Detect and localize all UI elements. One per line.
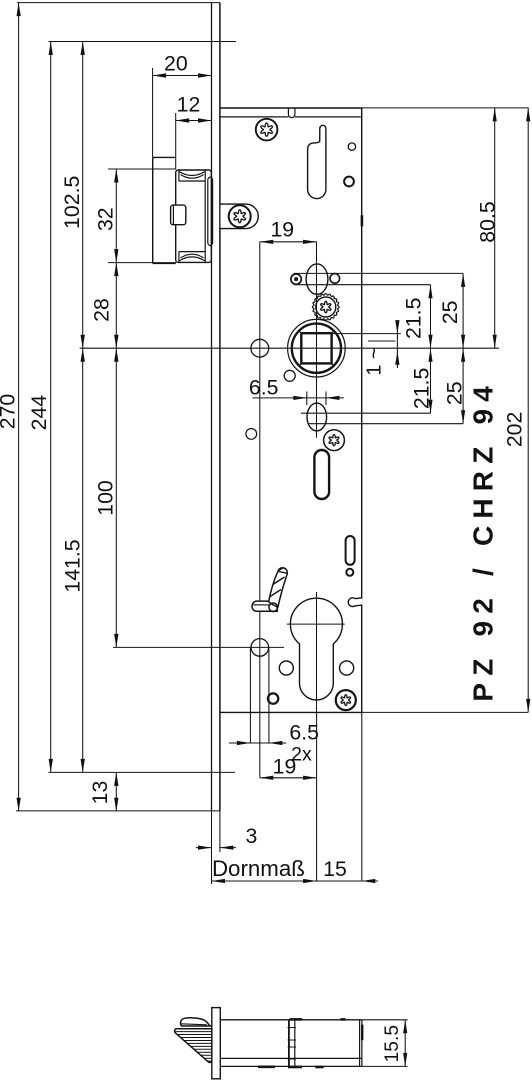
svg-text:19: 19 xyxy=(273,754,297,778)
nut square xyxy=(301,333,331,363)
dim 12 xyxy=(176,120,212,122)
capsule below nut xyxy=(307,403,327,431)
faceplate back edge xyxy=(219,3,221,811)
weld dashes top xyxy=(290,1018,303,1021)
screw T1 top xyxy=(256,119,278,141)
dim 1~ xyxy=(396,323,398,368)
dim 80.5 xyxy=(494,108,496,348)
square corner ticks xyxy=(298,330,301,333)
axis line lower xyxy=(316,592,318,712)
faceplate front edge xyxy=(211,3,213,811)
dim 244 xyxy=(50,42,52,773)
case edge hook detail xyxy=(348,598,362,607)
dim 19 top xyxy=(260,241,317,243)
thick circle xyxy=(268,693,278,703)
small capsule xyxy=(346,536,355,565)
svg-text:25: 25 xyxy=(443,381,467,405)
side view faceplate bar xyxy=(212,1008,221,1079)
strike body xyxy=(176,170,212,262)
svg-text:19: 19 xyxy=(270,217,294,241)
dim Dornmass + 15 xyxy=(212,880,362,882)
dim 32 xyxy=(115,169,117,263)
extension line nut axis xyxy=(80,347,499,349)
screw T3 xyxy=(336,690,356,710)
extension line case top right xyxy=(362,107,529,109)
extension line axis upper xyxy=(316,242,318,438)
latch head lobe xyxy=(180,1018,211,1026)
dim 6.5 upper xyxy=(253,397,345,399)
svg-text:1 ~: 1 ~ xyxy=(364,347,386,375)
case edge thick tick xyxy=(361,215,364,226)
extension line 12 left xyxy=(175,113,177,169)
svg-text:21.5: 21.5 xyxy=(402,298,426,339)
strike inner vertical xyxy=(204,181,206,252)
oval slot xyxy=(306,264,328,294)
small circle below capsule xyxy=(346,569,353,576)
extension line 244/141.5 bottom xyxy=(49,771,236,773)
extension line 25 lower xyxy=(308,423,464,425)
svg-text:202: 202 xyxy=(503,412,527,448)
strike bottom roller xyxy=(178,252,180,263)
svg-text:21.5: 21.5 xyxy=(409,368,433,409)
dim 21.5 upper xyxy=(430,285,432,349)
extension line top (270 ref, faceplate top) xyxy=(17,2,220,4)
svg-text:PZ 92 / CHRZ 94: PZ 92 / CHRZ 94 xyxy=(468,379,499,702)
extension line 32 top xyxy=(108,168,176,170)
small hole xyxy=(348,143,355,150)
case top notch xyxy=(288,108,295,117)
lock case outline xyxy=(220,108,362,712)
dim 141.5 xyxy=(82,348,84,772)
handle hole upper xyxy=(251,339,269,357)
svg-text:6.5: 6.5 xyxy=(289,720,319,744)
change lever xyxy=(252,601,277,611)
screw tab capsule xyxy=(221,204,259,229)
svg-text:15.5: 15.5 xyxy=(382,1025,403,1063)
thick slot capsule xyxy=(314,450,329,499)
small circle right of oval xyxy=(330,274,340,284)
extension line 20 left xyxy=(152,68,154,157)
svg-text:80.5: 80.5 xyxy=(476,201,500,242)
tangent lines hole lower xyxy=(249,648,251,743)
svg-text:13: 13 xyxy=(88,781,112,805)
svg-text:Dornmaß: Dornmaß xyxy=(212,856,305,881)
right edge tick xyxy=(361,1025,363,1041)
short reference line xyxy=(368,340,395,342)
extension line faceplate back below xyxy=(219,811,221,852)
latch bevel wedge xyxy=(174,1029,211,1063)
screw T2 xyxy=(324,430,345,451)
extension line 32 bottom xyxy=(108,262,176,264)
extension line x=259.8 xyxy=(259,242,261,778)
svg-text:102.5: 102.5 xyxy=(60,176,84,229)
extension line axis bottom xyxy=(316,712,318,881)
hook slot xyxy=(308,125,326,198)
svg-text:270: 270 xyxy=(0,394,19,430)
dim 13 xyxy=(115,772,117,811)
small circle left xyxy=(246,429,257,440)
nut outer circle xyxy=(288,319,346,377)
extension line faceplate front below xyxy=(211,811,213,884)
dim 25 lower xyxy=(462,348,464,424)
M5 hole left xyxy=(279,661,293,675)
M5 hole right xyxy=(340,661,354,675)
dim 28 xyxy=(115,263,117,349)
extension line 270 bottom (faceplate bottom) xyxy=(16,810,220,812)
latch bevel hatching xyxy=(170,1032,212,1062)
dim 102.5 xyxy=(82,42,84,349)
svg-text:28: 28 xyxy=(90,298,114,322)
dim 15.5 xyxy=(362,1019,408,1021)
strike outer plate xyxy=(152,157,154,263)
strike top roller xyxy=(178,170,180,181)
extension line 244/102.5 top xyxy=(49,41,237,43)
strike right slot xyxy=(208,177,213,179)
extension line case bottom right xyxy=(362,711,529,713)
dim 19 bottom xyxy=(260,777,317,779)
pin xyxy=(291,274,301,284)
small circle below nut xyxy=(284,370,295,381)
svg-text:244: 244 xyxy=(27,395,51,431)
svg-text:20: 20 xyxy=(164,51,188,75)
svg-text:15: 15 xyxy=(323,857,347,881)
strike left tab xyxy=(171,205,186,225)
svg-text:3: 3 xyxy=(245,824,257,848)
svg-text:141.5: 141.5 xyxy=(60,539,84,592)
handle hole lower xyxy=(251,639,269,657)
extension line 100 bottom (screw hole) xyxy=(113,646,284,648)
dim 100 xyxy=(115,348,117,647)
euro cylinder hole xyxy=(290,598,342,700)
dim 3 xyxy=(196,847,212,849)
serrated screw xyxy=(312,294,339,321)
svg-text:12: 12 xyxy=(177,93,201,117)
case inner top line xyxy=(220,116,289,118)
svg-text:32: 32 xyxy=(93,207,117,231)
svg-text:6.5: 6.5 xyxy=(249,376,279,400)
side view divider xyxy=(288,1020,290,1067)
extension line case right bottom xyxy=(361,712,363,881)
weld dashes bottom xyxy=(258,1066,275,1069)
screw B1 (strike fixing) xyxy=(229,205,251,227)
hole xyxy=(344,177,354,187)
nut inner circle xyxy=(292,324,341,373)
dim 20 xyxy=(153,75,212,77)
dim 25 upper xyxy=(462,273,464,348)
side view case box xyxy=(220,1019,361,1021)
svg-text:100: 100 xyxy=(94,480,118,516)
extension line pin top tangent xyxy=(294,272,463,274)
square top extension line xyxy=(332,333,401,335)
dim 202 xyxy=(527,108,529,713)
extension line 21.5 lower xyxy=(301,412,431,414)
svg-text:25: 25 xyxy=(438,300,462,324)
dim 21.5 lower xyxy=(430,348,432,413)
dim 270 xyxy=(18,3,20,812)
extension line pin bottom tangent xyxy=(294,284,431,286)
dim 6.5 lower xyxy=(229,742,286,744)
cylinder center line h xyxy=(287,623,345,625)
